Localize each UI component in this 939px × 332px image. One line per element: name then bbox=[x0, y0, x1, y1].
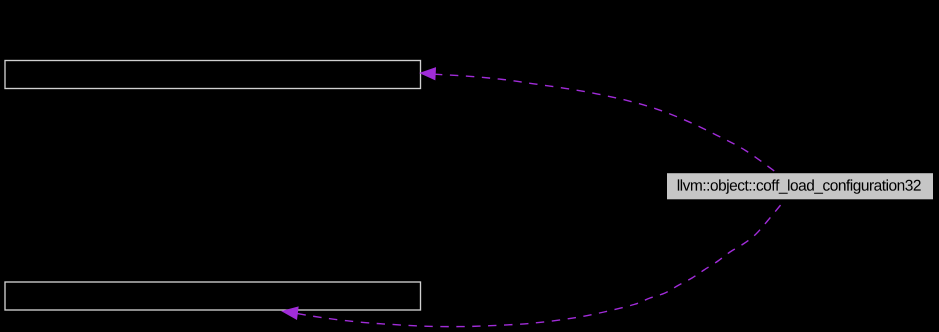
node box bottom (empty class node) bbox=[5, 282, 421, 310]
main node llvm::object::coff_load_configuration32 bbox=[667, 173, 933, 199]
node box top (empty class node) bbox=[5, 61, 421, 89]
usage edge B (dashed) to bottom box bbox=[298, 200, 786, 327]
arrowhead A bbox=[420, 68, 435, 80]
usage edge A (dashed) to top box bbox=[435, 74, 778, 173]
arrowhead B bbox=[282, 307, 298, 319]
